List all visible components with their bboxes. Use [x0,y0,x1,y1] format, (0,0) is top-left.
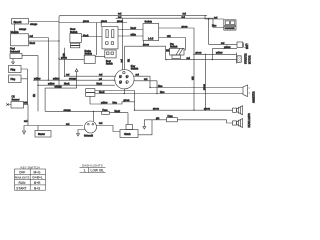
svg-text:black: black [131,28,137,30]
svg-text:AMMETER: AMMETER [253,91,256,103]
charger connector [224,20,236,26]
svg-text:wht: wht [191,76,194,80]
solenoid circle [85,121,97,133]
clutch box [120,130,138,138]
svg-text:orange: orange [64,109,72,112]
svg-text:B+R: B+R [34,181,41,185]
wire green brake [59,58,84,60]
svg-text:green: green [83,20,90,23]
ground fuel solenoid [12,59,15,65]
wire fuel solenoid to bus [22,55,38,57]
wire black long mid [95,93,243,95]
wire switch green right [159,27,194,29]
wire blue to ammeter [150,87,243,89]
svg-text:red: red [121,58,124,62]
svg-text:blue: blue [212,26,217,28]
svg-text:yellow: yellow [34,79,41,81]
wire clutch right [138,120,152,135]
svg-text:blue: blue [158,86,163,88]
svg-text:blue: blue [160,92,165,94]
svg-text:OFF: OFF [19,170,25,174]
wire module black [29,40,60,42]
junction dots [37,18,213,112]
svg-text:yellow: yellow [101,102,108,104]
wire T1 step to charger [205,15,224,19]
wire key switch top 2 [124,46,126,70]
wire oil to starter circuit [27,105,29,126]
wire white mid stepped [90,96,135,104]
svg-text:G+B+L: G+B+L [32,176,43,180]
svg-text:Plug: Plug [11,69,16,71]
svg-text:Starter: Starter [38,133,45,136]
wire key right red lower [134,81,157,94]
svg-text:yellow: yellow [53,79,60,81]
svg-text:wht: wht [167,35,171,38]
interlock connector upper [102,27,118,49]
wire green headlamp feed [135,109,233,111]
svg-text:blk: blk [34,93,36,97]
starter ground left [23,126,29,135]
svg-text:RUN: RUN [19,181,27,185]
svg-text:black: black [30,43,36,45]
wire key left black [38,84,115,86]
svg-text:green: green [101,20,108,23]
svg-text:wht: wht [24,102,28,105]
wire arrow stub x76.6 [75,69,78,88]
svg-text:green: green [124,99,131,102]
svg-text:red: red [99,122,103,125]
connector pair mid [86,89,95,93]
wire fuse right black [109,113,128,125]
svg-text:Sensor: Sensor [12,99,20,102]
svg-text:green: green [61,57,68,60]
svg-text:yellow: yellow [224,47,231,49]
svg-text:green: green [196,52,203,55]
svg-text:Solenoid: Solenoid [84,136,94,138]
svg-text:B+S: B+S [34,186,40,190]
svg-text:green: green [203,83,206,90]
wire vertical x96.7 [96,23,98,56]
wire solenoid to clutch [97,126,121,132]
key switch table [15,165,46,190]
svg-text:Switch: Switch [131,68,139,71]
wire orange L-drop [45,88,77,111]
oil sensor left pin [6,103,11,105]
svg-text:HEADLAMPS: HEADLAMPS [248,113,251,128]
svg-text:Switch: Switch [106,63,113,66]
svg-text:green: green [143,44,150,47]
starter box [35,131,51,138]
svg-text:L-0.5: L-0.5 [148,39,154,41]
clutch connector [126,125,133,130]
svg-text:RUN/LIGHTS: RUN/LIGHTS [15,177,30,180]
svg-text:Spark: Spark [14,20,22,24]
svg-text:yel: yel [99,79,102,81]
svg-text:black: black [83,36,89,38]
wire spark to engine bus, orange [29,21,60,23]
wire pto drop [165,46,167,59]
wire key switch top 1 [122,18,124,70]
wire switch bottom stub [143,41,145,47]
wire orange bottom run [45,110,102,112]
svg-text:black: black [97,84,103,86]
wire green key row [125,45,166,47]
wire key bottom stub [123,89,125,94]
wire spark down to module, orange [14,24,16,34]
svg-text:black: black [115,111,121,113]
wire green starter feed [194,53,237,55]
svg-text:orange: orange [55,86,63,89]
wire oil sensor white [24,104,29,106]
svg-text:MOTOR: MOTOR [250,55,252,64]
starter motor [236,53,238,64]
svg-text:M+G: M+G [34,170,42,174]
svg-text:BATT: BATT [246,43,249,49]
key switch circle [115,70,134,89]
svg-text:black: black [64,84,70,86]
wire module red [29,37,49,39]
svg-text:green: green [182,25,189,28]
svg-text:Solenoid: Solenoid [10,51,20,54]
wire bus x38 [37,56,39,112]
wire mid y90.5 [95,91,135,111]
wire key right red upper [134,76,150,87]
svg-text:Seat: Seat [106,60,111,63]
svg-text:white: white [131,33,137,36]
wire battery yellow [212,49,237,60]
svg-text:M: M [119,82,121,84]
wire brake to interlock [95,56,105,58]
svg-text:KEY SWITCH: KEY SWITCH [21,165,40,169]
svg-text:orange: orange [69,78,77,81]
wire plugs bus [21,69,28,105]
wire green engine top [59,22,127,24]
ammeter symbol [243,85,248,97]
headlamp 2 [233,121,237,125]
svg-text:CHARGER: CHARGER [225,27,236,30]
wire interlock right 2 [118,35,143,37]
svg-text:grn: grn [63,52,66,56]
svg-text:STARTER: STARTER [245,53,248,64]
wire starter main [28,125,83,127]
wire red top T1 [59,15,207,88]
wire pto left red [166,51,170,53]
svg-text:red: red [24,120,28,123]
svg-text:blue: blue [113,102,118,104]
connector under seat switch [71,43,80,45]
plug P2 [9,75,22,83]
svg-text:DASH LIGHTS: DASH LIGHTS [82,164,103,168]
headlamp 1 [233,108,237,112]
wire x64.6 [64,48,66,76]
wire bus x48.3 [47,38,49,81]
svg-text:LOW OIL: LOW OIL [91,169,105,173]
wire vertical x205 [204,54,206,110]
svg-text:1.: 1. [84,169,87,173]
wire key left red [65,75,116,77]
wire switch white [159,38,186,51]
wire fuse left ground [143,120,167,129]
wire vertical green x194 [193,28,195,110]
svg-text:yellow: yellow [48,84,55,86]
ground solenoid [77,130,85,137]
wire red T2 [116,18,225,27]
wire pto row to starter [166,59,237,61]
svg-text:Clutch: Clutch [124,133,131,136]
interlock connector lower [105,50,116,58]
wire interlock right 1 [118,29,143,31]
svg-text:yellow: yellow [216,53,223,55]
wire seat switch black [81,36,102,38]
svg-text:Plug: Plug [11,79,16,81]
svg-text:black: black [99,92,105,94]
wire starter stub [37,126,39,131]
wire key left yellow [33,79,116,81]
svg-text:blk: blk [128,58,130,62]
svg-text:orange: orange [30,23,38,26]
battery [237,42,243,48]
spark plug box [12,19,29,25]
svg-text:START: START [16,186,26,190]
dash lights table [80,164,106,173]
svg-text:green: green [153,108,160,111]
wire battery red [209,19,237,44]
svg-text:orange: orange [19,28,27,31]
wire fuse to headlamp [177,120,232,123]
plug P1 [9,66,22,73]
